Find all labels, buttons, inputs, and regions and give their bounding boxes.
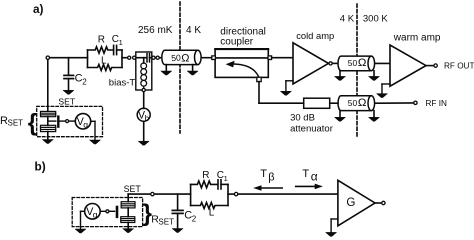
svg-text:50: 50 (348, 98, 358, 108)
svg-text:SET: SET (124, 184, 142, 194)
svg-text:coupler: coupler (220, 37, 253, 48)
svg-text:L: L (101, 55, 107, 66)
svg-text:Ω: Ω (358, 57, 367, 69)
svg-text:β: β (268, 172, 274, 184)
svg-text:2: 2 (82, 78, 87, 87)
svg-text:L: L (209, 207, 215, 218)
svg-text:a): a) (33, 2, 44, 16)
svg-text:R: R (202, 170, 209, 181)
svg-text:T: T (260, 168, 267, 180)
svg-text:50: 50 (348, 58, 358, 68)
svg-text:{: { (28, 110, 37, 137)
svg-text:1: 1 (119, 38, 123, 47)
svg-text:Ω: Ω (181, 52, 189, 64)
svg-text:4 K: 4 K (340, 14, 355, 25)
svg-text:300 K: 300 K (363, 14, 388, 25)
svg-text:R: R (98, 35, 105, 46)
svg-text:2: 2 (192, 215, 197, 224)
svg-text:bias-T: bias-T (109, 77, 136, 88)
svg-text:50: 50 (171, 52, 182, 63)
svg-text:30 dB: 30 dB (290, 113, 315, 124)
svg-text:warm amp: warm amp (393, 32, 441, 43)
svg-text:g: g (93, 209, 98, 219)
svg-text:4 K: 4 K (186, 25, 201, 36)
svg-text:b: b (145, 114, 150, 123)
svg-text:attenuator: attenuator (290, 124, 333, 135)
svg-text:T: T (302, 168, 309, 180)
svg-text:SET: SET (158, 218, 174, 227)
svg-text:RF IN: RF IN (426, 99, 447, 108)
svg-text:G: G (346, 196, 355, 209)
svg-text:SET: SET (58, 97, 75, 107)
svg-text:α: α (311, 169, 318, 183)
svg-text:b): b) (35, 160, 46, 174)
svg-text:1: 1 (224, 174, 228, 183)
svg-text:cold amp: cold amp (296, 30, 334, 41)
svg-text:Ω: Ω (358, 97, 367, 109)
svg-text:g: g (83, 119, 88, 129)
svg-text:SET: SET (8, 119, 24, 128)
svg-text:directional: directional (220, 26, 266, 37)
svg-text:256 mK: 256 mK (138, 25, 173, 36)
svg-text:RF OUT: RF OUT (444, 62, 474, 71)
